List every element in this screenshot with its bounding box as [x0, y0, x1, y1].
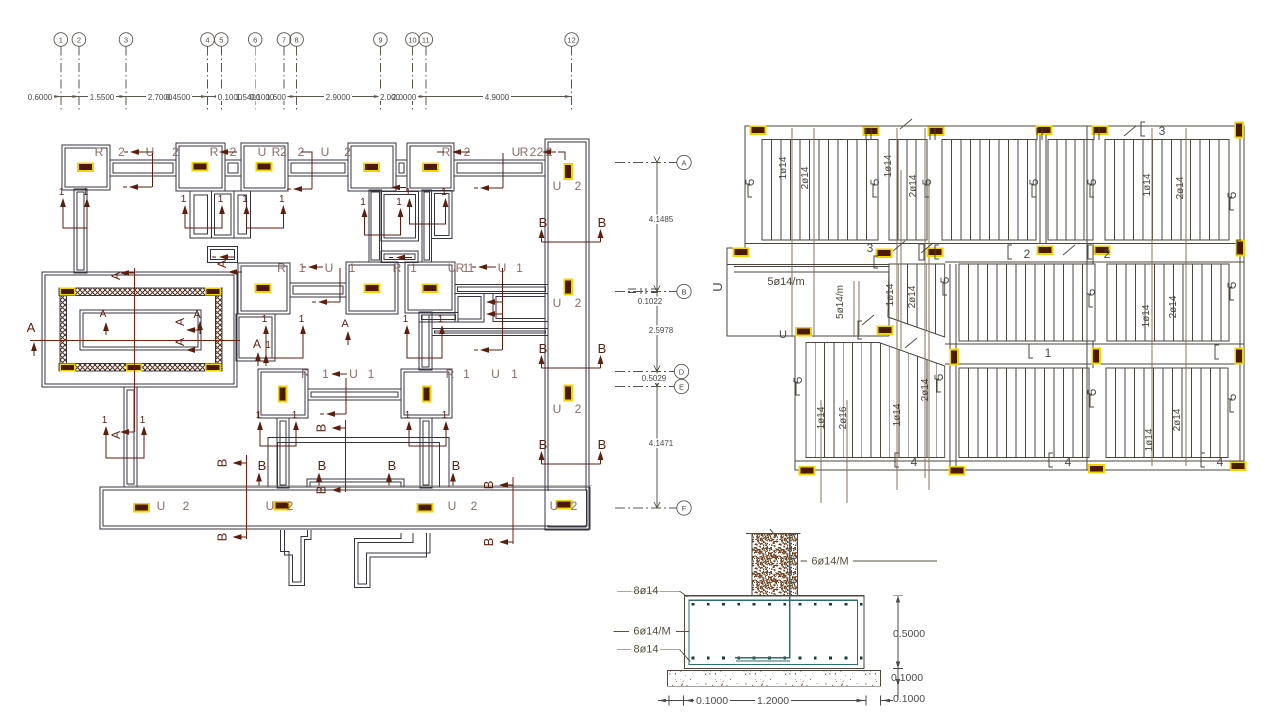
small box below B1: [381, 251, 418, 263]
arrows into boxes near strip: [486, 299, 503, 305]
svg-text:U: U: [258, 145, 267, 159]
svg-text:U: U: [157, 499, 166, 513]
svg-text:0.1000: 0.1000: [696, 695, 728, 707]
svg-text:1: 1: [265, 340, 271, 351]
corridor B below S3: [234, 191, 250, 238]
svg-text:2: 2: [571, 499, 578, 513]
svg-text:U: U: [553, 296, 562, 310]
svg-text:A: A: [173, 338, 187, 346]
slab panel low 2: [1106, 368, 1228, 458]
corridor M1-M2: [290, 283, 346, 297]
svg-text:1: 1: [396, 197, 402, 208]
svg-text:1ø14: 1ø14: [883, 154, 894, 177]
svg-text:1: 1: [59, 36, 63, 45]
svg-text:4.1471: 4.1471: [649, 439, 674, 448]
corridor A below S2: [190, 191, 211, 238]
footing S2: [176, 143, 225, 191]
svg-text:4: 4: [911, 455, 918, 469]
wing extra beam lines: [727, 264, 889, 266]
footing S5: [407, 143, 454, 191]
svg-text:1ø14: 1ø14: [1142, 173, 1153, 196]
box B1 below S4-S5: [381, 192, 419, 242]
label arrows row1: [130, 149, 153, 155]
svg-text:2: 2: [172, 145, 179, 159]
svg-text:1: 1: [360, 197, 366, 208]
svg-text:1: 1: [279, 194, 285, 205]
corridor M3 to strip: [455, 285, 548, 294]
bottom strip: [100, 487, 590, 529]
svg-text:5: 5: [1085, 178, 1099, 185]
svg-text:B: B: [215, 459, 230, 468]
svg-text:D: D: [679, 367, 685, 376]
svg-text:B: B: [314, 486, 329, 495]
column marker: [927, 247, 944, 257]
stair diagonals: [879, 317, 945, 366]
svg-text:B: B: [598, 215, 607, 230]
svg-text:2: 2: [471, 499, 478, 513]
svg-text:R: R: [393, 261, 402, 275]
svg-text:B: B: [539, 437, 548, 452]
svg-text:1: 1: [262, 314, 268, 325]
svg-text:5: 5: [938, 276, 952, 283]
left wing room with beam: [734, 264, 889, 336]
svg-text:10: 10: [408, 36, 416, 45]
footing S3: [241, 143, 288, 191]
svg-text:B: B: [539, 215, 548, 230]
svg-text:1: 1: [299, 261, 306, 275]
footing M2: [346, 262, 398, 314]
svg-text:2.5978: 2.5978: [649, 326, 674, 335]
lower-left slab panel: [806, 343, 945, 458]
column marker (vertical): [563, 163, 573, 180]
svg-text:1: 1: [1045, 346, 1052, 360]
svg-text:A: A: [253, 337, 261, 351]
small slashes: [900, 119, 912, 129]
svg-text:2: 2: [183, 499, 190, 513]
svg-text:5: 5: [1225, 191, 1239, 198]
corridor left of stub: [419, 313, 458, 323]
svg-text:B: B: [598, 437, 607, 452]
svg-text:0.1000: 0.1000: [891, 672, 923, 684]
column marker bottom strip: [556, 500, 573, 510]
section line A vertical through block: [134, 268, 136, 432]
svg-text:1.600: 1.600: [266, 93, 287, 102]
svg-text:1.2000: 1.2000: [757, 695, 789, 707]
svg-text:R: R: [446, 367, 455, 381]
column marker: [877, 325, 894, 335]
bottom strip raised bump: [307, 479, 404, 487]
corridor S3-S4: [288, 160, 348, 176]
svg-text:B: B: [215, 533, 230, 542]
column stipple: [752, 534, 798, 595]
column marker: [1036, 125, 1053, 135]
lean concrete strip: [667, 671, 880, 687]
arrows inside small boxes: [219, 254, 234, 260]
svg-text:B: B: [388, 458, 397, 473]
svg-text:4: 4: [1217, 455, 1224, 469]
hatched wall bottom band: [59, 364, 222, 372]
stub box left of strip: [455, 294, 484, 322]
svg-text:3: 3: [124, 36, 128, 45]
section line A-A horizontal: [30, 340, 240, 342]
svg-text:5: 5: [1027, 178, 1041, 185]
column grid bubbles and dimension line: [54, 33, 578, 112]
slab panel mid 2: [1107, 264, 1229, 341]
svg-text:0.1000: 0.1000: [893, 693, 925, 705]
svg-text:U: U: [325, 261, 334, 275]
column marker (vertical): [1235, 240, 1245, 257]
svg-text:1ø14: 1ø14: [778, 156, 789, 179]
footing S1: [62, 145, 110, 190]
svg-text:F: F: [682, 504, 687, 513]
large footing block with hatched walls: [42, 272, 237, 387]
svg-text:2ø14: 2ø14: [907, 285, 918, 308]
svg-text:2: 2: [344, 145, 351, 159]
svg-text:4.1485: 4.1485: [649, 215, 674, 224]
slab panel top 5: [1105, 140, 1229, 241]
footing inner teal rectangle: [689, 600, 858, 664]
svg-text:0.5000: 0.5000: [893, 628, 925, 640]
strip/bottom-strip junction cleanup: [546, 491, 586, 525]
hatched wall left band: [60, 296, 67, 364]
svg-text:R: R: [301, 367, 310, 381]
svg-text:1: 1: [242, 194, 248, 205]
svg-text:1: 1: [468, 261, 475, 275]
svg-text:12: 12: [567, 36, 575, 45]
column marker: [1037, 245, 1054, 255]
small box below L1: [208, 246, 238, 262]
svg-text:2ø16: 2ø16: [838, 406, 849, 429]
frame corridor above bottom strip: [268, 437, 449, 486]
column marker (vertical): [563, 385, 573, 402]
svg-text:U: U: [349, 367, 358, 381]
slab panel top 2: [889, 140, 927, 241]
svg-text:4: 4: [205, 36, 209, 45]
column marker (vertical): [1234, 122, 1244, 139]
svg-text:U: U: [553, 402, 562, 416]
empty small rect marker: [919, 244, 924, 260]
svg-text:1: 1: [256, 410, 262, 421]
column marker: [1230, 461, 1247, 471]
svg-text:E: E: [679, 382, 684, 391]
column marker: [256, 162, 273, 172]
column marker: [863, 126, 880, 136]
leaders below row2: [339, 268, 341, 302]
stepped protrusion P2 below strip: [355, 533, 431, 588]
svg-text:1: 1: [299, 314, 305, 325]
svg-text:2: 2: [280, 145, 287, 159]
svg-text:8ø14: 8ø14: [633, 644, 658, 656]
corridor M3 down: [419, 312, 432, 370]
svg-text:B: B: [481, 481, 496, 490]
svg-text:5: 5: [1085, 388, 1099, 395]
corridor D below S5: [422, 190, 432, 262]
hatched wall top band: [59, 288, 222, 296]
svg-text:1: 1: [218, 194, 224, 205]
column marker: [928, 126, 945, 136]
svg-text:1: 1: [140, 415, 146, 426]
svg-text:5ø14/m: 5ø14/m: [767, 276, 804, 288]
small room below M1: [236, 314, 275, 361]
slab panel top 3: [942, 140, 1036, 241]
svg-text:1: 1: [59, 187, 65, 198]
leader below row3: [345, 378, 347, 414]
corridor R3a-R3b: [308, 389, 401, 400]
column marker: [422, 283, 439, 293]
svg-text:A: A: [681, 158, 686, 167]
svg-text:B: B: [481, 538, 496, 547]
stepped protrusion P1 below strip: [281, 530, 311, 586]
svg-text:6ø14/M: 6ø14/M: [811, 556, 848, 568]
svg-text:3: 3: [867, 241, 874, 255]
svg-text:1: 1: [441, 187, 447, 198]
column marker: [192, 162, 209, 172]
slab panel mid 1: [959, 264, 1095, 341]
slab panel low 1: [959, 368, 1089, 458]
svg-text:11: 11: [422, 36, 430, 45]
svg-text:R: R: [520, 145, 529, 159]
rebar dots top/bottom: [692, 603, 863, 660]
svg-text:2.9000: 2.9000: [326, 93, 351, 102]
svg-text:5: 5: [932, 373, 946, 380]
svg-text:1: 1: [438, 314, 444, 325]
column rebar line with hook: [735, 534, 790, 658]
corridor R3a down: [277, 418, 289, 488]
svg-text:2: 2: [575, 179, 582, 193]
svg-text:5: 5: [1225, 281, 1239, 288]
corridor from block down to strip: [124, 387, 137, 487]
corridor S1 down: [74, 189, 87, 273]
svg-text:4: 4: [1065, 455, 1072, 469]
corridor S5-strip: [454, 160, 545, 176]
svg-text:B: B: [258, 458, 267, 473]
internal band lines: [745, 244, 1244, 462]
svg-text:1: 1: [403, 314, 409, 325]
corridor S2-S3: [225, 160, 241, 176]
svg-text:U: U: [710, 282, 725, 291]
svg-text:2ø14: 2ø14: [1168, 295, 1179, 318]
column marker (vertical): [278, 386, 288, 403]
column marker: [1092, 125, 1109, 135]
room box left of strip: [493, 294, 548, 322]
vertical beam lines: [950, 126, 1093, 470]
svg-text:1ø14: 1ø14: [892, 403, 903, 426]
dimension 0.5000: [893, 596, 903, 669]
svg-text:1: 1: [349, 261, 356, 275]
svg-text:2ø14: 2ø14: [908, 174, 919, 197]
slab panel top 1: [762, 140, 878, 241]
column marker: [363, 162, 380, 172]
svg-text:U: U: [553, 179, 562, 193]
svg-text:4.9000: 4.9000: [485, 93, 510, 102]
column marker: [255, 283, 272, 293]
svg-text:1: 1: [516, 261, 523, 275]
svg-text:2: 2: [575, 296, 582, 310]
column marker: [876, 248, 893, 258]
block wall marker: [60, 363, 76, 371]
section B-B horizontal trace: [128, 485, 592, 487]
svg-text:2ø14: 2ø14: [1175, 176, 1186, 199]
block wall marker: [126, 363, 142, 371]
top edge tick pairs at beams: [866, 128, 1099, 140]
column marker: [795, 327, 812, 337]
svg-text:8: 8: [295, 36, 299, 45]
svg-text:B: B: [452, 458, 461, 473]
box B2 below S5: [432, 191, 453, 239]
column marker: [364, 283, 381, 293]
hatched wall right band: [216, 296, 223, 364]
column marker (vertical): [949, 349, 959, 366]
svg-text:1: 1: [405, 410, 411, 421]
svg-text:U: U: [448, 499, 457, 513]
svg-text:5ø14/m: 5ø14/m: [835, 285, 846, 319]
svg-text:2: 2: [287, 499, 294, 513]
column marker: [799, 466, 816, 476]
column marker bottom strip: [417, 503, 434, 513]
svg-text:U: U: [321, 145, 330, 159]
svg-text:5: 5: [920, 178, 934, 185]
footing S4: [348, 143, 396, 191]
column marker bottom strip: [133, 503, 150, 513]
svg-text:2ø14: 2ø14: [920, 378, 931, 401]
svg-text:0.5029: 0.5029: [642, 374, 667, 383]
leader with arrows below row1 labels: [152, 153, 154, 187]
column marker: [750, 125, 767, 135]
svg-text:0.1022: 0.1022: [638, 297, 663, 306]
svg-text:1: 1: [292, 410, 298, 421]
svg-text:1: 1: [368, 367, 375, 381]
corridor R3b down: [420, 418, 432, 488]
footing R3a: [258, 369, 308, 418]
svg-text:1: 1: [83, 187, 89, 198]
svg-text:2.0000: 2.0000: [392, 93, 417, 102]
corridor lower to strip: [432, 329, 548, 336]
svg-text:A: A: [215, 260, 229, 268]
svg-text:0.4500: 0.4500: [166, 93, 191, 102]
svg-text:5: 5: [1084, 288, 1098, 295]
svg-text:B: B: [598, 341, 607, 356]
svg-text:A: A: [341, 318, 349, 330]
svg-text:1: 1: [405, 187, 411, 198]
column marker: [1094, 245, 1111, 255]
slab outer boundary: [727, 126, 1244, 470]
svg-text:2: 2: [575, 402, 582, 416]
corridor S4-S5: [396, 160, 407, 176]
svg-text:1: 1: [102, 415, 108, 426]
svg-text:9: 9: [378, 36, 382, 45]
svg-text:B: B: [318, 458, 327, 473]
svg-text:5: 5: [791, 376, 805, 383]
svg-text:5: 5: [219, 36, 223, 45]
svg-text:5: 5: [1225, 393, 1239, 400]
box L1 below S2-S3: [211, 191, 234, 238]
right vertical strip footing U2: [545, 139, 589, 530]
svg-text:1: 1: [322, 367, 329, 381]
svg-text:1ø14: 1ø14: [816, 406, 827, 429]
column marker (vertical): [422, 386, 432, 403]
svg-text:R: R: [95, 145, 104, 159]
svg-text:A: A: [100, 309, 107, 320]
column marker: [949, 466, 966, 476]
svg-text:1ø14: 1ø14: [885, 283, 896, 306]
svg-text:5: 5: [743, 178, 757, 185]
footing outer rectangle: [685, 596, 865, 669]
svg-text:1ø14: 1ø14: [1141, 304, 1152, 327]
break symbol at B level: [628, 288, 658, 294]
corridor C below S4: [369, 190, 382, 262]
bracket number labels: [1141, 122, 1145, 136]
svg-text:B: B: [681, 287, 686, 296]
column marker: [733, 247, 750, 257]
dimension line: [27, 96, 572, 98]
svg-text:U: U: [266, 499, 275, 513]
svg-text:1: 1: [442, 410, 448, 421]
svg-text:U: U: [779, 329, 787, 341]
B-B section vertical lines: [246, 455, 248, 539]
svg-text:U: U: [491, 367, 500, 381]
column marker (vertical): [1234, 348, 1244, 365]
block wall marker: [205, 363, 221, 371]
svg-text:1: 1: [181, 194, 187, 205]
svg-text:1ø14: 1ø14: [1144, 428, 1155, 451]
svg-text:6ø14/M: 6ø14/M: [633, 626, 670, 638]
long rebar leader lines: [792, 128, 1186, 503]
bottom dimension line: [658, 696, 893, 706]
svg-text:R: R: [277, 261, 286, 275]
svg-text:A: A: [193, 309, 201, 321]
svg-text:R: R: [210, 145, 219, 159]
svg-text:1: 1: [410, 261, 417, 275]
column marker: [1088, 464, 1105, 474]
section circles A-F with dimension chain: [615, 155, 691, 515]
svg-text:6: 6: [253, 36, 257, 45]
slab panel top 4: [1048, 140, 1093, 241]
svg-text:3: 3: [1159, 124, 1166, 138]
svg-text:1: 1: [511, 367, 518, 381]
svg-text:B: B: [314, 424, 329, 433]
column marker bottom strip: [274, 501, 291, 511]
svg-text:2ø14: 2ø14: [800, 166, 811, 189]
svg-text:2ø14: 2ø14: [1172, 408, 1183, 431]
svg-text:U: U: [550, 499, 559, 513]
svg-text:A: A: [27, 320, 36, 335]
svg-text:B: B: [539, 341, 548, 356]
[5 marks: [748, 185, 752, 197]
footing M1: [238, 263, 290, 314]
block wall marker: [205, 287, 221, 295]
svg-text:2: 2: [77, 36, 81, 45]
column marker (vertical): [1091, 348, 1101, 365]
svg-text:A: A: [173, 318, 187, 326]
inner courtyard rectangle: [80, 310, 201, 350]
block wall marker: [60, 287, 76, 295]
dimension 0.1000 right: [897, 669, 899, 701]
corridor S1-S2: [110, 160, 176, 176]
svg-text:1: 1: [463, 367, 470, 381]
stair panel (trapezoid): [888, 264, 945, 337]
svg-text:7: 7: [282, 36, 286, 45]
svg-text:0.6000: 0.6000: [28, 93, 53, 102]
svg-text:1.5500: 1.5500: [90, 93, 115, 102]
svg-text:2: 2: [1104, 247, 1111, 261]
column marker: [422, 162, 439, 172]
svg-text:2: 2: [1024, 247, 1031, 261]
svg-text:5: 5: [868, 178, 882, 185]
svg-text:2: 2: [530, 145, 537, 159]
column marker (vertical): [563, 279, 573, 296]
column marker: [77, 162, 94, 172]
footing M3: [405, 262, 455, 313]
